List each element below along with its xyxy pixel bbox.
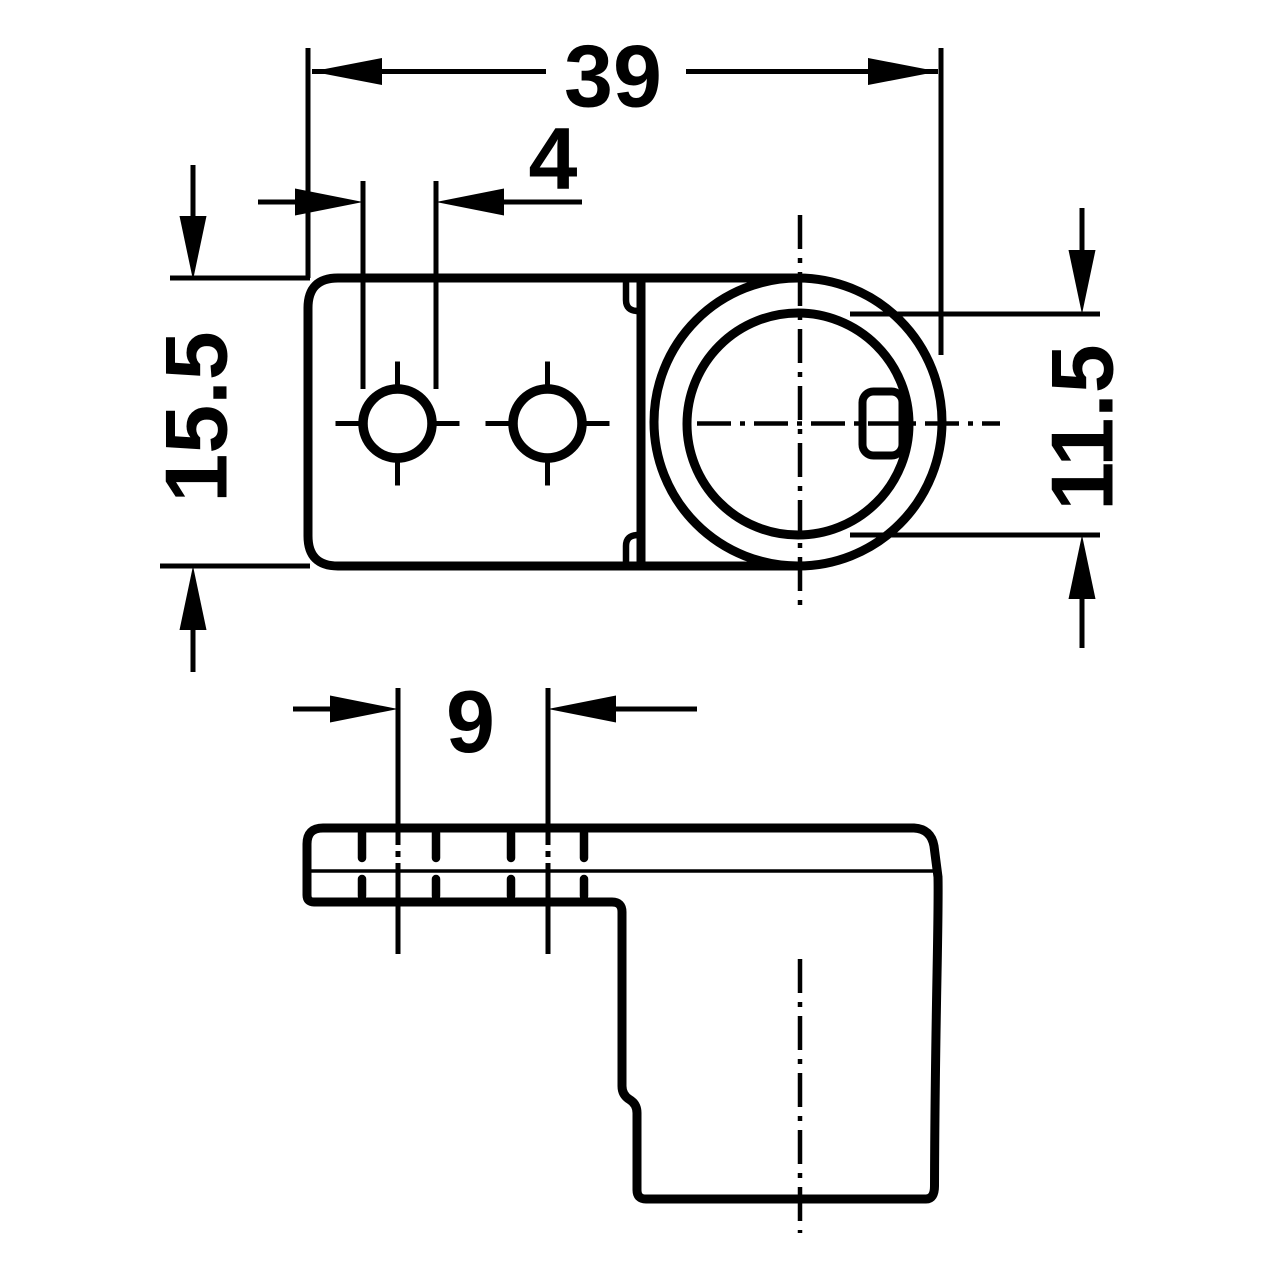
dimension 4: extension lines bbox=[361, 181, 366, 389]
top view: plate right edge bbox=[637, 278, 646, 566]
dimension 11.5: extension lines bbox=[850, 312, 1100, 317]
dimension 15.5: extension lines bbox=[170, 276, 310, 281]
top view: vertical centerline bbox=[798, 215, 803, 613]
dimension 39: dimension line and arrows bbox=[312, 69, 546, 74]
dimension 9: extension lines / hole centerlines bbox=[396, 688, 401, 954]
svg-text:11.5: 11.5 bbox=[1033, 344, 1132, 510]
dimension 11.5: arrows bbox=[1080, 208, 1085, 258]
svg-text:39: 39 bbox=[564, 27, 662, 126]
hole H1 crosshair bbox=[336, 362, 460, 486]
top view: ring boss outer circle bbox=[654, 278, 942, 566]
side view: bracket outline bbox=[307, 828, 938, 1199]
side view: serration ribs top row bbox=[362, 833, 584, 858]
top view: tangent silhouette top bbox=[641, 274, 802, 283]
dimension 15.5: arrows bbox=[191, 165, 196, 225]
dimension 9: arrows bbox=[293, 707, 340, 712]
hole H2 crosshair bbox=[486, 362, 610, 486]
side view: serration ribs bottom row bbox=[362, 879, 584, 896]
top view: keyway slot bbox=[863, 392, 903, 456]
side view: vertical centerline bbox=[798, 959, 803, 1233]
dimension 4: arrows bbox=[258, 200, 310, 205]
top view: relief notch bottom bbox=[626, 535, 638, 566]
top view: relief notch top bbox=[626, 280, 638, 311]
dimension 39: extension lines bbox=[306, 48, 311, 278]
svg-text:15.5: 15.5 bbox=[147, 331, 246, 502]
top view: mounting plate outline bbox=[308, 278, 641, 566]
hole H2 bbox=[513, 389, 582, 458]
top view: horizontal centerline bbox=[697, 421, 1000, 426]
top view: ring bore inner circle bbox=[687, 313, 909, 535]
svg-text:4: 4 bbox=[529, 109, 578, 208]
hole H1 bbox=[363, 389, 432, 458]
top view: tangent silhouette bottom bbox=[641, 562, 802, 571]
side view: flange mid line bbox=[307, 869, 936, 873]
svg-text:9: 9 bbox=[446, 672, 495, 771]
